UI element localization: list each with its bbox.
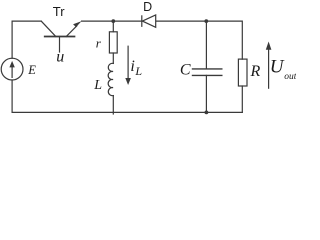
- diode D cathode bar: [141, 16, 143, 26]
- transistor Tr emitter lead with arrowhead: [66, 26, 77, 37]
- wire: left vertical (top part) and top wire to transistor collector: [12, 21, 41, 58]
- svg-text:u: u: [56, 49, 64, 66]
- node: junction dot at capacitor branch bottom: [205, 111, 209, 115]
- svg-text:R: R: [250, 63, 261, 80]
- wire: lead from L down to bottom wire: [112, 96, 114, 114]
- svg-text:Tr: Tr: [53, 4, 65, 19]
- svg-text:C: C: [180, 62, 191, 79]
- svg-text:D: D: [143, 0, 152, 14]
- wire: lead between r and inductor L: [112, 53, 114, 63]
- svg-text:L: L: [93, 78, 102, 93]
- resistor R: [238, 59, 247, 86]
- wire: left vertical below source E: [11, 80, 13, 112]
- wire: capacitor top lead: [205, 21, 207, 69]
- source E arrow: [11, 65, 13, 77]
- svg-text:L: L: [134, 64, 142, 78]
- wire: bottom wire: [12, 111, 242, 113]
- diode D triangle: [142, 15, 155, 27]
- wire: resistor R bottom lead to bottom wire: [241, 86, 243, 112]
- svg-text:i: i: [130, 58, 134, 75]
- inductor L coil: [108, 63, 113, 95]
- arrow: U_out voltage arrow: [268, 50, 270, 88]
- node: junction dot at r-L branch top: [111, 19, 115, 23]
- capacitor C top plate: [193, 68, 222, 70]
- wire: capacitor bottom lead: [205, 75, 207, 112]
- resistor r: [109, 32, 117, 53]
- svg-text:E: E: [27, 63, 36, 77]
- wire: top wire from diode to top-right corner, down to resistor R: [156, 21, 243, 59]
- svg-text:U: U: [270, 56, 285, 77]
- wire: branch lead from top wire down to resistor r: [112, 21, 114, 32]
- source E circle: [1, 58, 23, 80]
- transistor Tr collector lead: [41, 21, 56, 36]
- capacitor C bottom plate: [193, 74, 222, 76]
- transistor Tr base bar: [45, 36, 75, 38]
- wire: top wire from emitter arrow tip to diode cathode bar: [82, 20, 142, 22]
- node: junction dot at capacitor branch top: [204, 19, 208, 23]
- transistor Tr base lead: [59, 37, 61, 53]
- svg-text:out: out: [284, 72, 296, 82]
- arrow: i_L current arrow: [127, 46, 129, 80]
